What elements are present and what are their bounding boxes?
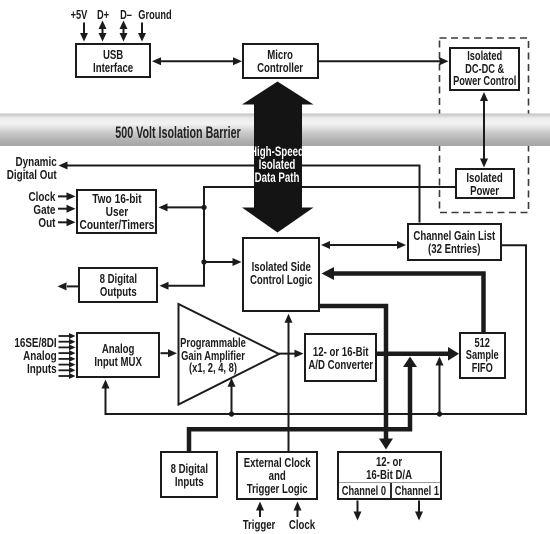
8 Digital Inputs box — [160, 451, 218, 498]
thick wire A/D to FIFO data bus — [377, 347, 459, 361]
Two 16-bit User Counter/Timers box — [76, 189, 157, 234]
isolation dashed enclosure — [440, 38, 529, 213]
junction node at counter/timers branch — [201, 205, 206, 210]
wire External Clock Trigger Logic up to Isolated Side Control Logic — [285, 314, 293, 451]
wire 8 Digital Outputs output arrow — [58, 282, 79, 290]
label Clock — [288, 517, 314, 532]
high-speed isolated data path big arrow — [242, 82, 314, 233]
500 volt isolation barrier bar — [0, 114, 550, 147]
wire branch arrow into PGA bottom — [228, 378, 236, 414]
label D- — [120, 8, 132, 22]
wire branch arrow into Counter/Timers — [159, 203, 205, 211]
label Dynamic Digital Out — [7, 155, 57, 181]
wire branch arrow up into A/D-FIFO bus — [436, 357, 444, 415]
wire +5V arrow into USB Interface — [80, 23, 88, 42]
Channel Gain List box — [407, 223, 502, 261]
wire PGA to A/D arrow — [279, 350, 304, 358]
wire Isolated Side Control Logic to Channel Gain List double arrow — [321, 241, 406, 249]
label Ground — [138, 8, 171, 22]
label Clock Gate Out — [28, 190, 55, 229]
wire Gate arrow into Counter/Timers — [58, 205, 76, 213]
label 16SE/8DI Analog Inputs — [14, 336, 56, 376]
thick wire FIFO to Isolated Side Control Logic — [322, 267, 484, 332]
label Trigger — [242, 517, 275, 532]
wire Isolated DC-DC to Isolated Power double arrow — [480, 92, 488, 168]
wire Channel 0 output arrow — [354, 501, 362, 521]
thick wire Isolated Side Control Logic to D/A — [320, 306, 393, 450]
Analog Input MUX box — [76, 332, 160, 378]
wire gain feedback net from Channel Gain List to MUX — [102, 245, 527, 414]
wire MUX to PGA arrow — [161, 349, 178, 357]
12- or 16-Bit D/A box — [337, 451, 442, 500]
wire Clock input arrow — [294, 502, 302, 518]
wire analog input arrows into MUX — [59, 333, 76, 379]
label Programmable Gain Amplifier — [180, 337, 246, 375]
junction node at FIFO bus branch — [437, 411, 442, 416]
wire Micro Controller to Isolated DC-DC arrow — [319, 57, 449, 65]
wire Out arrow into Counter/Timers — [58, 218, 76, 226]
junction node at control logic branch — [201, 259, 206, 264]
wire USB Interface to Micro Controller double arrow — [152, 57, 242, 65]
wire Channel 1 output arrow — [415, 501, 423, 521]
8 Digital Outputs box — [78, 267, 158, 303]
Isolated Side Control Logic box — [242, 237, 320, 312]
Micro Controller box — [242, 43, 319, 79]
wire Dynamic Digital Out net to Channel Gain List — [59, 162, 420, 223]
label D+ — [97, 8, 109, 22]
wire Ground arrow into USB Interface — [138, 23, 146, 42]
label +5V — [71, 8, 88, 22]
Isolated DC-DC Power Control box — [449, 47, 520, 91]
12- or 16-Bit A/D Converter box — [304, 333, 377, 382]
thick wire 8 Digital Inputs to data bus — [189, 357, 417, 452]
External Clock and Trigger Logic box — [236, 451, 318, 500]
Isolated Power box — [455, 168, 515, 199]
wire Isolated Power distribution net — [160, 187, 456, 290]
wire branch arrow into Isolated Side Control Logic left — [204, 258, 242, 266]
USB Interface box — [75, 43, 151, 78]
op-amp triangle PGA — [179, 304, 280, 405]
label 500 Volt Isolation Barrier — [115, 123, 240, 143]
wire D+ double arrow — [99, 21, 107, 42]
wire D- double arrow — [120, 21, 128, 42]
junction node at PGA gain branch — [229, 411, 234, 416]
512 Sample FIFO box — [459, 332, 506, 379]
wire Clock arrow into Counter/Timers — [58, 192, 76, 200]
wire Trigger input arrow — [256, 502, 264, 518]
label High-Speed Isolated Data Path — [250, 145, 304, 184]
